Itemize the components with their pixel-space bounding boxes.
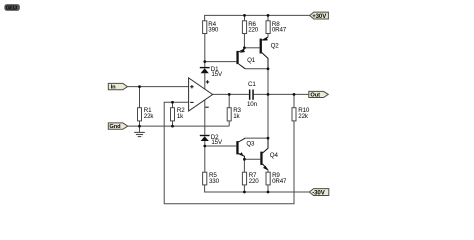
svg-text:330: 330: [209, 178, 220, 185]
svg-text:+30V: +30V: [312, 13, 327, 20]
svg-text:Q4: Q4: [270, 152, 279, 159]
svg-text:10n: 10n: [247, 101, 258, 108]
svg-text:22k: 22k: [298, 113, 309, 120]
svg-text:C1: C1: [248, 81, 256, 88]
svg-text:220: 220: [248, 27, 259, 34]
svg-text:22k: 22k: [144, 113, 155, 120]
svg-text:0R47: 0R47: [272, 27, 287, 34]
svg-text:Q2: Q2: [271, 43, 280, 50]
svg-text:In: In: [111, 85, 116, 91]
svg-text:220: 220: [249, 178, 260, 185]
svg-text:Q3: Q3: [246, 141, 255, 148]
svg-text:0R47: 0R47: [272, 178, 287, 185]
svg-text:-30V: -30V: [312, 190, 326, 197]
svg-text:GE13: GE13: [6, 6, 18, 12]
svg-text:Q1: Q1: [247, 57, 256, 64]
svg-text:15V: 15V: [211, 71, 223, 78]
svg-text:1k: 1k: [233, 113, 240, 120]
svg-text:15V: 15V: [211, 139, 223, 146]
svg-text:390: 390: [208, 27, 219, 34]
svg-text:1k: 1k: [177, 113, 184, 120]
svg-text:Gnd: Gnd: [109, 124, 121, 130]
svg-text:Out: Out: [310, 93, 320, 99]
